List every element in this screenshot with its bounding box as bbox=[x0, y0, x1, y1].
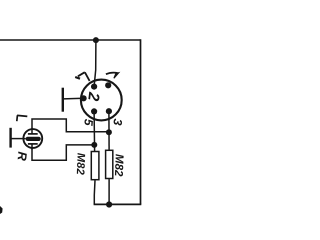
connector U1 DIN socket outline bbox=[81, 80, 122, 121]
wire resistor R2 bottom lead bbox=[108, 179, 110, 204]
node junction dot cartridge L to pin3 net bbox=[106, 129, 112, 135]
wire bottom horizontal bbox=[94, 203, 142, 205]
scan artifact blob left edge bbox=[0, 206, 3, 214]
pin 3 contact dot bbox=[106, 108, 112, 114]
pin 2 contact dot bbox=[81, 95, 87, 101]
svg-text:R: R bbox=[15, 151, 30, 161]
wire top horizontal bus bbox=[0, 39, 141, 41]
pickup crystal element slab bbox=[26, 137, 41, 141]
wire from top bus down to pin 4 bbox=[94, 40, 96, 86]
wire cartridge to chassis ground bbox=[11, 138, 26, 140]
wire pin 2 to chassis ground bbox=[64, 97, 84, 100]
resistor R2 body bbox=[106, 150, 113, 178]
wire pin 5 down to resistor R1 bbox=[93, 111, 96, 151]
svg-text:3: 3 bbox=[110, 118, 125, 126]
label L cartridge left channel bbox=[17, 115, 28, 121]
ground chassis bar at connector bbox=[62, 88, 64, 112]
pickup cartridge B1 body circle bbox=[23, 129, 42, 148]
wire cartridge L terminal to pin3 net bbox=[32, 119, 109, 132]
node junction dot cartridge R to pin5 net bbox=[91, 142, 97, 148]
wire cartridge R terminal to pin5 net bbox=[32, 145, 94, 160]
pin 4 contact dot bbox=[91, 84, 97, 90]
svg-text:M82: M82 bbox=[112, 154, 125, 177]
svg-text:2: 2 bbox=[84, 90, 102, 102]
svg-text:M82: M82 bbox=[74, 153, 87, 175]
wire inside cartridge top stub bbox=[31, 128, 33, 134]
node junction dot on top bus bbox=[93, 37, 99, 43]
pin label 4 bbox=[78, 72, 90, 81]
pin 5 contact dot bbox=[91, 108, 97, 114]
wire resistor R1 bottom lead bbox=[93, 180, 96, 204]
node junction dot bottom bus bbox=[106, 201, 112, 207]
resistor R1 body bbox=[91, 152, 99, 180]
wire inside cartridge bottom stub bbox=[31, 144, 33, 150]
wire right vertical border bbox=[140, 39, 142, 204]
pin label 1 bbox=[106, 73, 118, 75]
pickup crystal top plate bbox=[28, 133, 38, 135]
pin 1 contact dot bbox=[105, 82, 111, 88]
ground chassis bar at cartridge bbox=[9, 128, 11, 148]
wire pin 3 down to resistor R2 bbox=[108, 111, 110, 150]
pickup crystal bottom plate bbox=[28, 143, 38, 145]
